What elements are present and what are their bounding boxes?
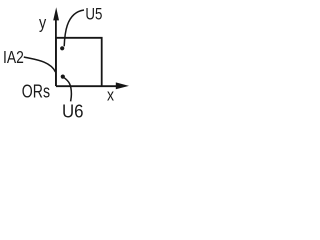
svg-text:IA2: IA2 (3, 47, 24, 67)
leader line IA2 (24, 57, 56, 72)
svg-text:x: x (107, 86, 114, 105)
y-axis (55, 20, 57, 87)
x-axis (56, 85, 117, 87)
leader line U6 (64, 78, 71, 102)
square region outline (top and right edges) (56, 38, 102, 86)
y-axis arrowhead (53, 7, 59, 20)
node U6 dot (61, 75, 65, 79)
svg-text:U6: U6 (62, 101, 84, 120)
svg-text:ORs: ORs (22, 82, 50, 102)
svg-text:U5: U5 (85, 5, 102, 24)
svg-text:y: y (39, 12, 46, 32)
leader line U5 (64, 10, 84, 46)
x-axis arrowhead (116, 82, 129, 89)
background (0, 0, 135, 120)
node U5 dot (60, 46, 64, 50)
